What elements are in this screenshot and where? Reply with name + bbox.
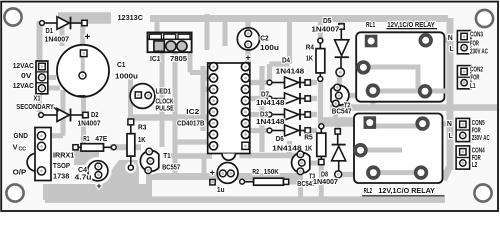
wire T1 to DIP band: [160, 153, 212, 159]
IC U2 CD4017B DIP16: [208, 63, 250, 161]
wire IRRX to C4 pour: [74, 150, 96, 165]
svg-text:N: N: [447, 121, 452, 128]
wire right bus vertical: [447, 18, 454, 170]
wire inter-relay band: [330, 104, 497, 111]
wire IC1 pin3 elbow: [190, 53, 207, 73]
transistor T3 BC547: [292, 151, 310, 175]
connector CON2: [457, 66, 471, 89]
svg-text:150K: 150K: [264, 169, 279, 176]
wire RL2 mid internal: [361, 148, 403, 153]
wire T1 emitter down: [146, 172, 152, 200]
wire RL2 coil internal: [375, 124, 421, 129]
wire top bus drop x225: [223, 18, 228, 46]
svg-text:TSOP: TSOP: [53, 163, 70, 170]
svg-text:12V,1C/O RELAY: 12V,1C/O RELAY: [387, 22, 435, 29]
wire DIP left stub r1: [203, 75, 212, 80]
svg-text:+: +: [245, 53, 250, 63]
svg-text:GND: GND: [14, 133, 28, 140]
wire LED row band: [130, 114, 207, 121]
wire ground patch bottom-left: [43, 184, 150, 200]
wire D8 top to band: [335, 118, 340, 130]
svg-text:7805: 7805: [170, 56, 187, 63]
wire T3 emitter down: [298, 172, 303, 199]
svg-text:N: N: [448, 35, 453, 42]
mounting hole top-right: [476, 10, 493, 27]
wire T2 base from left: [342, 91, 373, 96]
wire D5 pad to bus: [339, 18, 344, 24]
svg-text:CLOCK: CLOCK: [156, 98, 174, 105]
wire DIP right stub d4: [246, 80, 268, 85]
wire D5 to T2 collector: [337, 74, 342, 85]
connector CON3: [457, 31, 471, 54]
svg-text:R2: R2: [252, 169, 259, 176]
connector CON5: [456, 118, 470, 141]
wire C1 minus to IRRX GND: [46, 90, 63, 136]
diode D8 1N4007: [313, 129, 346, 186]
svg-text:IC1: IC1: [150, 56, 161, 63]
svg-text:CON4: CON4: [472, 148, 485, 155]
svg-text:12VAC: 12VAC: [13, 63, 34, 70]
svg-text:LED1: LED1: [156, 89, 172, 96]
connector X1 secondary: [36, 61, 48, 94]
wire X1 down continuation: [37, 93, 42, 112]
wire R2 to T3 column: [286, 179, 300, 184]
transistor T2 BC547: [331, 84, 349, 107]
IR receiver connector IRRX1 TSOP1738: [27, 128, 51, 181]
svg-text:SECONDARY: SECONDARY: [16, 104, 54, 111]
wire DIP row stub left: [175, 139, 212, 144]
svg-text:CON2: CON2: [470, 67, 483, 74]
svg-text:R4: R4: [306, 45, 314, 52]
wire top bus drop x207: [205, 14, 210, 50]
svg-text:D3: D3: [260, 111, 268, 118]
svg-text:CON5: CON5: [472, 120, 485, 127]
svg-text:V: V: [13, 144, 18, 151]
svg-text:L: L: [449, 133, 454, 140]
capacitor C1 1000u: [57, 31, 138, 97]
wire DIP right stub d7: [246, 96, 268, 101]
svg-text:D2: D2: [91, 112, 99, 119]
svg-text:L: L: [450, 46, 455, 53]
wire X1 pin2 stub: [42, 75, 56, 80]
mounting hole top-left: [4, 8, 21, 25]
svg-text:230V AC: 230V AC: [470, 49, 488, 56]
svg-text:BC557: BC557: [162, 165, 180, 172]
wire R5 to bottom bus: [319, 162, 324, 199]
diode D3 1N4148: [256, 109, 310, 126]
svg-text:1K: 1K: [138, 137, 146, 144]
svg-text:12VAC: 12VAC: [13, 83, 34, 90]
svg-text:FOR: FOR: [472, 127, 481, 134]
wire bottom bus: [45, 196, 445, 203]
wire IC1 top feed: [155, 20, 160, 32]
svg-text:100u: 100u: [260, 45, 279, 52]
svg-text:BC547: BC547: [332, 108, 352, 115]
transistor T1 BC557: [140, 148, 158, 173]
underline RL2 label: [362, 195, 445, 197]
wire T3 base to R5 column: [305, 161, 318, 166]
diode D5 1N4007: [311, 18, 348, 76]
relay RL1: [356, 32, 450, 101]
svg-text:C4: C4: [78, 167, 87, 174]
svg-text:+: +: [210, 168, 215, 178]
wire top bus drop x289: [287, 18, 292, 64]
svg-text:D5: D5: [323, 18, 332, 25]
connector CON4: [456, 146, 470, 169]
wire C1 negative down to R1 row: [81, 75, 86, 146]
svg-text:FOR: FOR: [472, 155, 481, 162]
svg-text:R1: R1: [83, 136, 89, 143]
svg-text:1N4007: 1N4007: [313, 179, 338, 186]
svg-text:1N4148: 1N4148: [256, 119, 285, 126]
wire RL1 bottom internal: [373, 89, 425, 94]
svg-text:1N4148: 1N4148: [256, 100, 285, 107]
svg-text:O/P: O/P: [13, 169, 27, 176]
wire diode output stubs: [310, 83, 317, 131]
diode D6 1N4148: [267, 125, 310, 153]
svg-text:+: +: [96, 181, 101, 191]
wire DIP pin16 down: [243, 146, 248, 156]
relay RL2: [353, 114, 442, 184]
svg-text:FOR: FOR: [470, 40, 479, 47]
svg-text:RL2: RL2: [364, 188, 373, 195]
svg-text:T1: T1: [163, 153, 171, 160]
wire D8 anode to RL2: [338, 172, 373, 177]
svg-text:1N4148: 1N4148: [276, 69, 305, 76]
wire X1 pin3 stub: [42, 86, 60, 91]
resistor R2 150K: [240, 169, 289, 185]
svg-text:IRRX1: IRRX1: [53, 152, 74, 159]
wire DIP to T3 base: [240, 153, 299, 159]
diode D7 1N4148: [256, 92, 310, 107]
capacitor C2 100u: [237, 28, 259, 63]
resistor R1 47E: [73, 136, 116, 151]
svg-text:IC2: IC2: [186, 109, 199, 116]
wire relay coil band: [320, 117, 369, 127]
mounting hole bottom-left: [6, 184, 23, 201]
capacitor C3 1u: [210, 163, 238, 185]
clearance around R3 bottom pad: [125, 162, 136, 173]
svg-text:0V: 0V: [21, 73, 32, 80]
wire RL2 NO to CON5: [423, 122, 450, 127]
LED1 clock pulse: [130, 84, 155, 109]
wire DIP right stub d3: [246, 112, 268, 117]
svg-text:1N4007: 1N4007: [311, 26, 339, 33]
mounting hole bottom-right: [474, 184, 491, 201]
svg-text:R3: R3: [138, 124, 147, 131]
wire R4 top to bus: [318, 18, 323, 40]
wire IC1 pin2 down: [173, 53, 178, 177]
svg-text:12313C: 12313C: [118, 15, 144, 22]
regulator IC1 7805: [148, 33, 192, 63]
svg-text:C1: C1: [117, 62, 126, 69]
svg-text:1N4007: 1N4007: [45, 36, 70, 43]
wire diode column vertical: [259, 66, 264, 152]
resistor R3 1K: [127, 119, 147, 170]
wire C2 bottom to DIP: [245, 44, 250, 64]
diode D2 1N4007: [39, 109, 101, 128]
underline RL1 label: [387, 28, 438, 30]
wire top bus: [150, 15, 448, 22]
wire C4 feed: [94, 145, 99, 158]
wire RL1 NO to CON3: [426, 38, 451, 43]
svg-text:CON3: CON3: [470, 32, 483, 39]
label SECONDARY: [16, 104, 58, 111]
wire top bus left segment: [58, 12, 111, 24]
svg-text:RL1: RL1: [366, 22, 375, 29]
wire DIP left vertical: [200, 66, 205, 131]
wire R3 top vertical: [128, 78, 133, 120]
svg-text:12V,1C/O RELAY: 12V,1C/O RELAY: [378, 188, 435, 195]
wire R4 to R5 vertical: [318, 79, 323, 126]
wire RL1 BL to inter band: [371, 96, 376, 107]
svg-text:1738: 1738: [53, 174, 69, 181]
svg-text:1N4007: 1N4007: [78, 121, 101, 128]
resistor R4 1K: [306, 38, 325, 81]
wire T2 emitter down: [333, 104, 338, 121]
clearance around C4: [84, 157, 112, 185]
svg-text:X1: X1: [34, 95, 41, 102]
wire T3 riser: [287, 141, 292, 155]
svg-text:L2: L2: [472, 162, 478, 169]
wire C2 top to bus: [245, 18, 250, 33]
svg-text:D7: D7: [261, 92, 269, 99]
svg-text:1000u: 1000u: [115, 74, 138, 81]
wire DIP left stub r2: [203, 87, 212, 92]
capacitor C4 4.7u: [88, 161, 108, 191]
wire ladder feed elbow: [270, 64, 290, 80]
svg-text:4.7u: 4.7u: [75, 175, 92, 182]
wire band link x204: [202, 156, 207, 177]
svg-text:D6: D6: [276, 136, 284, 143]
svg-text:D1: D1: [46, 28, 54, 35]
svg-text:1u: 1u: [217, 187, 225, 194]
wire IC1 pin1 down: [160, 53, 165, 148]
wire RL2 bottom internal: [373, 170, 450, 175]
svg-text:R5: R5: [304, 135, 313, 142]
wire right bus taper: [444, 167, 450, 180]
wire D1 pad to X1 pin1: [37, 21, 43, 64]
wire C1 positive vertical: [80, 20, 85, 53]
svg-text:C2: C2: [260, 36, 269, 43]
wire top band drop x62: [60, 20, 65, 46]
svg-text:47E: 47E: [95, 136, 107, 143]
svg-text:1K: 1K: [305, 146, 313, 153]
svg-text:D8: D8: [321, 171, 328, 178]
svg-text:FOR: FOR: [471, 75, 480, 82]
svg-text:230V AC: 230V AC: [472, 135, 490, 142]
diode D4 1N4148: [267, 57, 310, 88]
svg-text:+: +: [84, 31, 90, 43]
resistor R5 1K: [304, 124, 326, 165]
svg-text:CC: CC: [19, 147, 27, 153]
clearance around T1: [137, 148, 164, 175]
wire DIP right stub d6: [246, 128, 268, 133]
svg-text:PULSE: PULSE: [156, 106, 175, 113]
wire mid band to C3: [150, 173, 298, 180]
svg-text:CD4017B: CD4017B: [177, 120, 205, 127]
svg-text:1K: 1K: [306, 55, 313, 62]
wire R1 to T1 row: [110, 144, 141, 150]
diode D1 1N4007: [40, 17, 88, 44]
svg-text:D4: D4: [282, 57, 290, 64]
wire RL1 coil internal: [363, 65, 420, 70]
svg-text:L1: L1: [470, 83, 476, 90]
